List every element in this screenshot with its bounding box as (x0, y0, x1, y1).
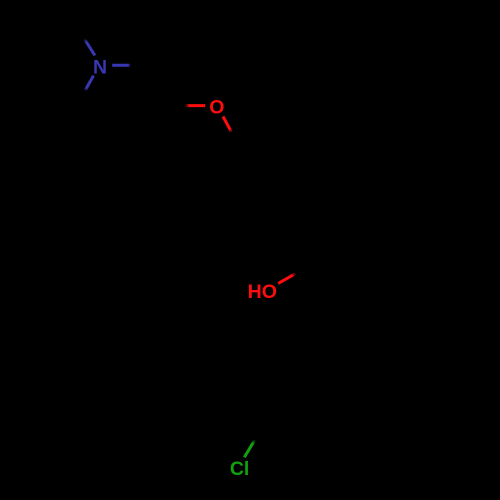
svg-text:N: N (93, 56, 107, 78)
bond HO-C up-right (half, O side) (278, 273, 296, 283)
bond O-Caryl down-right (half, O side) (223, 117, 232, 133)
svg-text:HO: HO (248, 281, 277, 303)
svg-text:Cl: Cl (230, 458, 250, 480)
bond Cl-Caryl up-right (half, Cl side) (244, 440, 255, 458)
bond N-CH3 upper-left (half, N side) (84, 39, 95, 56)
svg-text:O: O (209, 96, 224, 118)
bond N-CH2 right (half, N side) (112, 64, 131, 67)
bond O-CH2 left (half, O side) (185, 104, 205, 107)
bond N-CH3 lower-left (half, N side) (85, 76, 94, 91)
